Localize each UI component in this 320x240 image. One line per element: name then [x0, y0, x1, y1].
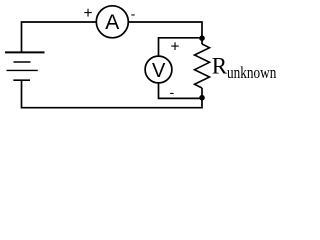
battery plate long [7, 69, 38, 71]
wire voltmeter top branch [159, 38, 203, 56]
wire voltmeter bottom branch [159, 83, 203, 98]
voltmeter U2 circle [145, 56, 172, 83]
svg-text:Runknown: Runknown [212, 54, 277, 82]
svg-text:A: A [105, 11, 119, 34]
node A junction dot [199, 35, 205, 41]
svg-text:+: + [170, 38, 179, 55]
svg-text:-: - [131, 6, 136, 22]
wire resistor bottom to bottom rail [22, 80, 203, 108]
battery B1 [5, 52, 45, 80]
battery plate short [14, 61, 31, 63]
svg-text:V: V [152, 60, 166, 82]
battery plate short bottom [13, 79, 30, 81]
wire ammeter to top-right corner down to node A [129, 22, 202, 44]
node B junction dot [199, 95, 205, 101]
svg-text:-: - [169, 84, 174, 100]
battery plate long top [5, 51, 45, 53]
ammeter U1 circle [96, 6, 128, 38]
resistor R_unknown [195, 44, 210, 88]
wire battery top to ammeter [22, 22, 96, 52]
svg-text:+: + [83, 5, 92, 22]
